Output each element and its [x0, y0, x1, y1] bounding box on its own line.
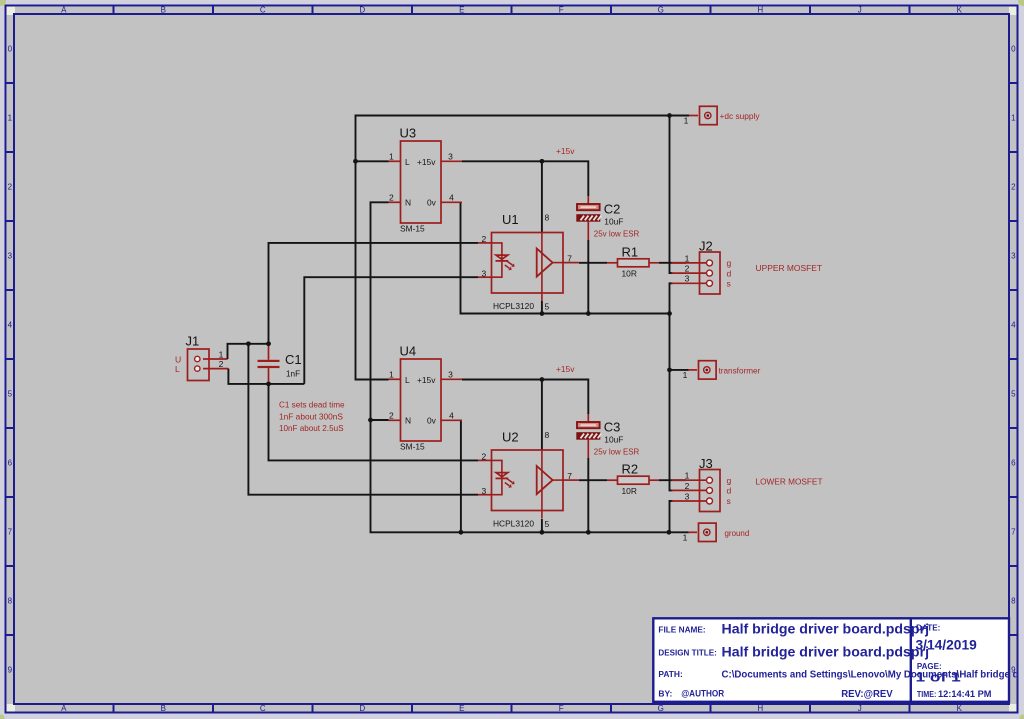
svg-text:10uF: 10uF — [604, 217, 623, 227]
svg-text:1: 1 — [8, 114, 13, 123]
svg-text:U3: U3 — [400, 126, 417, 141]
svg-text:HCPL3120: HCPL3120 — [493, 519, 534, 529]
svg-text:0v: 0v — [427, 198, 437, 208]
svg-text:B: B — [161, 704, 166, 713]
svg-text:G: G — [658, 6, 664, 15]
svg-text:0: 0 — [8, 45, 13, 54]
svg-text:8: 8 — [545, 213, 550, 223]
svg-text:10nF about 2.5uS: 10nF about 2.5uS — [279, 423, 344, 433]
svg-text:2: 2 — [482, 234, 487, 244]
svg-text:transformer: transformer — [719, 366, 761, 376]
svg-text:3: 3 — [8, 252, 13, 261]
svg-text:ground: ground — [725, 528, 750, 538]
svg-text:SM-15: SM-15 — [400, 224, 425, 234]
svg-text:+15v: +15v — [556, 364, 575, 374]
svg-text:1: 1 — [684, 116, 689, 126]
svg-text:0: 0 — [1011, 45, 1016, 54]
svg-text:7: 7 — [567, 254, 572, 264]
svg-text:C2: C2 — [604, 202, 621, 217]
svg-text:8: 8 — [8, 597, 13, 606]
svg-text:6: 6 — [8, 459, 13, 468]
svg-text:1 of 1: 1 of 1 — [916, 671, 961, 685]
svg-text:10R: 10R — [622, 269, 637, 279]
svg-text:C:\Documents and Settings\Leno: C:\Documents and Settings\Lenovo\My Docu… — [722, 670, 1019, 681]
svg-text:R1: R1 — [622, 244, 639, 259]
svg-text:3: 3 — [448, 152, 453, 162]
svg-text:N: N — [405, 198, 411, 208]
svg-text:4: 4 — [8, 321, 13, 330]
svg-text:5: 5 — [1011, 390, 1016, 399]
svg-text:C: C — [260, 6, 266, 15]
svg-text:2: 2 — [685, 481, 690, 491]
svg-text:C1: C1 — [285, 352, 302, 367]
svg-text:C3: C3 — [604, 420, 621, 435]
svg-text:J1: J1 — [186, 334, 200, 349]
svg-text:d: d — [727, 486, 732, 496]
svg-text:10uF: 10uF — [604, 435, 623, 445]
svg-text:B: B — [161, 6, 166, 15]
svg-text:3: 3 — [685, 491, 690, 501]
svg-text:F: F — [559, 6, 564, 15]
svg-text:3: 3 — [482, 486, 487, 496]
svg-text:C1 sets dead time: C1 sets dead time — [279, 400, 345, 410]
svg-text:5: 5 — [545, 519, 550, 529]
svg-text:J: J — [858, 6, 862, 15]
svg-text:C: C — [260, 704, 266, 713]
svg-text:2: 2 — [482, 452, 487, 462]
svg-text:TIME:: TIME: — [917, 690, 937, 699]
svg-text:+15v: +15v — [417, 375, 436, 385]
svg-text:1: 1 — [685, 471, 690, 481]
svg-text:d: d — [727, 268, 732, 278]
svg-text:25v low ESR: 25v low ESR — [594, 228, 640, 238]
svg-text:L: L — [405, 375, 410, 385]
svg-text:10R: 10R — [622, 486, 637, 496]
svg-text:U2: U2 — [502, 430, 519, 445]
svg-text:A: A — [61, 704, 67, 713]
svg-text:F: F — [559, 704, 564, 713]
svg-text:7: 7 — [567, 471, 572, 481]
svg-text:3: 3 — [482, 268, 487, 278]
svg-text:3: 3 — [685, 274, 690, 284]
svg-text:0v: 0v — [427, 416, 437, 426]
svg-text:Half bridge driver board.pdspr: Half bridge driver board.pdsprj — [722, 622, 930, 637]
svg-text:H: H — [757, 6, 763, 15]
svg-text:1: 1 — [683, 370, 688, 380]
svg-text:U: U — [175, 355, 181, 365]
svg-text:4: 4 — [449, 411, 454, 421]
svg-text:FILE NAME:: FILE NAME: — [658, 625, 705, 634]
svg-text:3: 3 — [448, 370, 453, 380]
svg-text:U1: U1 — [502, 212, 519, 227]
svg-text:4: 4 — [1011, 321, 1016, 330]
svg-text:1: 1 — [685, 253, 690, 263]
svg-text:K: K — [957, 6, 963, 15]
svg-text:8: 8 — [545, 430, 550, 440]
svg-text:1: 1 — [219, 349, 224, 359]
svg-text:H: H — [757, 704, 763, 713]
svg-text:BY:: BY: — [658, 689, 672, 698]
svg-text:E: E — [459, 704, 464, 713]
svg-text:s: s — [727, 496, 731, 506]
svg-text:D: D — [359, 6, 365, 15]
svg-text:2: 2 — [389, 411, 394, 421]
svg-text:E: E — [459, 6, 464, 15]
svg-text:J: J — [858, 704, 862, 713]
svg-text:1: 1 — [389, 370, 394, 380]
svg-text:12:14:41 PM: 12:14:41 PM — [938, 689, 992, 700]
svg-text:L: L — [175, 364, 180, 374]
svg-text:1: 1 — [1011, 114, 1016, 123]
svg-text:9: 9 — [8, 666, 13, 675]
svg-text:DATE:: DATE: — [916, 624, 940, 633]
svg-text:+15v: +15v — [556, 146, 575, 156]
svg-text:+dc supply: +dc supply — [720, 111, 761, 121]
svg-text:25v low ESR: 25v low ESR — [594, 446, 640, 456]
svg-text:A: A — [61, 6, 67, 15]
svg-text:2: 2 — [8, 183, 13, 192]
svg-text:1nF about 300nS: 1nF about 300nS — [279, 411, 343, 421]
svg-text:3: 3 — [1011, 252, 1016, 261]
svg-text:5: 5 — [545, 302, 550, 312]
svg-text:g: g — [727, 258, 732, 268]
svg-text:4: 4 — [449, 193, 454, 203]
svg-text:SM-15: SM-15 — [400, 442, 425, 452]
svg-text:7: 7 — [8, 528, 13, 537]
svg-text:s: s — [727, 279, 731, 289]
svg-text:D: D — [359, 704, 365, 713]
svg-text:7: 7 — [1011, 528, 1016, 537]
svg-text:REV:@REV: REV:@REV — [841, 688, 893, 700]
svg-text:L: L — [405, 157, 410, 167]
svg-text:J3: J3 — [699, 456, 713, 471]
svg-text:K: K — [957, 704, 963, 713]
svg-text:U4: U4 — [400, 344, 417, 359]
svg-text:PATH:: PATH: — [658, 670, 682, 679]
svg-text:HCPL3120: HCPL3120 — [493, 301, 534, 311]
svg-text:1: 1 — [683, 532, 688, 542]
svg-text:N: N — [405, 416, 411, 426]
svg-text:2: 2 — [219, 359, 224, 369]
svg-text:+15v: +15v — [417, 157, 436, 167]
svg-text:UPPER MOSFET: UPPER MOSFET — [756, 263, 823, 273]
svg-text:R2: R2 — [622, 462, 639, 477]
svg-text:6: 6 — [1011, 459, 1016, 468]
svg-text:2: 2 — [685, 264, 690, 274]
svg-text:DESIGN TITLE:: DESIGN TITLE: — [658, 648, 716, 657]
svg-text:1: 1 — [389, 152, 394, 162]
svg-text:J2: J2 — [699, 238, 713, 253]
svg-text:1nF: 1nF — [286, 370, 300, 379]
svg-text:5: 5 — [8, 390, 13, 399]
svg-text:Half bridge driver board.pdspr: Half bridge driver board.pdsprj — [722, 645, 930, 660]
svg-text:@AUTHOR: @AUTHOR — [681, 688, 724, 698]
svg-text:2: 2 — [1011, 183, 1016, 192]
svg-text:LOWER MOSFET: LOWER MOSFET — [756, 477, 824, 487]
svg-text:8: 8 — [1011, 597, 1016, 606]
svg-text:3/14/2019: 3/14/2019 — [916, 637, 977, 653]
svg-text:G: G — [658, 704, 664, 713]
svg-text:2: 2 — [389, 193, 394, 203]
svg-text:g: g — [727, 475, 732, 485]
